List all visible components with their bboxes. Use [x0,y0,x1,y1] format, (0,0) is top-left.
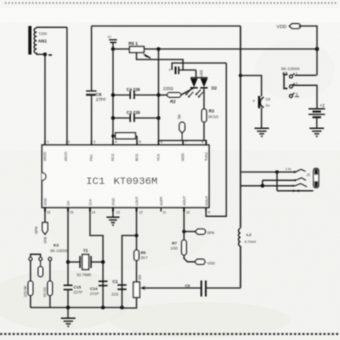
IC1 bottom pin names [44,196,209,206]
potentiometer RV wiper arrow from right [140,286,201,290]
SPK tag connector [42,223,47,235]
capacitor C14 [90,281,108,296]
perforated bottom edge [0,333,340,335]
node C3 row right [157,116,161,120]
capacitor C1 electrolytic LED [169,67,180,75]
earphone jack J1 plug body [314,168,319,187]
node crystal right [101,260,105,264]
IC1 pin stubs [45,141,206,212]
earphone jack J1 wires [241,167,314,192]
switch K3 contact 2 [39,257,42,260]
switch K1 contact 2 [289,85,292,88]
IC1 top pin names [43,151,208,161]
wire y140.5 [159,141,207,146]
tag 5K connector [178,114,185,141]
node pin10 branch [182,230,186,234]
node VDD junction [315,47,319,51]
node C4 row left [111,93,115,97]
IC1 notch [42,173,46,181]
LED D1 [190,78,197,87]
capacitor C6 plates [86,91,97,95]
capacitor C15 [64,285,83,308]
resistor R3 body [202,109,207,122]
wire vertical x45 to IC pin1 [44,54,46,145]
wire node to C5 [241,76,262,97]
resistor R4 column [24,261,33,308]
potentiometer RV body [133,282,139,298]
wire x226 down to pin9 path [206,63,226,216]
wire branch to C1 column [122,236,137,308]
wire pin7 stub [182,141,184,146]
wire vertical x91.5 to IC pin3 [91,95,93,145]
wire wiper down [137,53,184,71]
capacitor C9 [185,281,241,297]
polarity dash [49,54,52,56]
capacitor C1 [112,279,127,297]
node C4 row right [157,93,161,97]
node x158.5 y49 [157,47,161,51]
switch K1 contact 3 [289,94,292,97]
wire VDD junction down to switch [316,49,318,75]
wire antenna bottom to node [37,53,45,55]
resistor R7 [171,240,187,255]
antenna AN1 ferrite bar [28,26,31,55]
antenna AN1 coil [34,28,37,53]
switch K3 contact 3 [48,257,51,260]
node antenna junction [43,53,47,57]
switch K3 bridge [31,254,41,256]
wire right trunk x240.5 [240,26,242,228]
node rail x68 [66,306,70,310]
wire R2 to node [159,94,168,96]
wire C1 to LED anodes [179,69,196,71]
wire battery to ground [316,117,318,128]
node x113 y49 [111,47,115,51]
capacitor C3 [113,110,159,122]
potentiometer R1 body [130,47,145,53]
wire pin12 down [136,208,138,251]
ground pin13 [107,208,120,227]
wire y49 rail [113,48,317,50]
IC1 bottom pin numbers [47,211,211,215]
link component R8 between pin4 pin5 [113,133,137,145]
SPA tag [184,229,215,235]
wire D1 cathode to R2 [181,88,194,95]
wire C5 to ground [261,108,263,128]
VDD tag connector [289,24,300,29]
wire pin14 jog to crystal column [90,208,103,308]
ground C5 [255,128,270,137]
resistor R5 [134,250,147,282]
tag below contact2 [38,261,43,277]
wire antenna top to pin2 column [37,26,67,29]
capacitor C5 electrolytic [253,96,271,108]
wire pin15 column [67,208,69,286]
wire pot bottom to rail [122,298,137,309]
switch K3 contact 1 [29,257,32,260]
capacitor C4 [113,87,159,99]
LED D2 [200,78,207,87]
node pin12 branch [135,234,139,238]
wire contact2 to battery [293,85,317,108]
wire pin16 to SPK tag [44,208,46,223]
switch K1 bracket actuator [284,75,288,89]
op-amp IC1 body [42,145,209,208]
wire vertical x91.5 top [91,26,93,91]
node link left [111,134,114,137]
wire vertical x66 to IC pin2 [66,27,68,145]
node rail x122 [120,306,124,310]
node crystal left [66,260,70,264]
wire VDD tag to junction [299,26,318,49]
wire top rail y26 [92,25,241,27]
node C3 row left [111,116,115,120]
wire vertical x158.5 to IC pin6 [158,49,160,145]
LED D2 emission arrows [195,90,203,98]
wire vertical x113 to IC pin4 [112,49,114,145]
ground rail bottom [31,307,123,309]
perforated top edge [5,2,337,4]
inductor L2 [238,229,255,247]
node C5 branch [239,74,243,78]
switch K1 contact 1 [289,75,292,78]
IC1 top pin numbers [47,140,204,144]
ground battery [310,128,325,137]
resistor R2 body [167,93,181,98]
ground rail symbol [61,308,76,328]
wire contact1 to trunk [295,74,317,76]
crystal Y1 [68,248,103,277]
wire LED box top y63 [172,63,226,70]
wire D2 to R3 [203,88,205,109]
LED D1 emission arrows [185,90,193,98]
resistor R6 column [43,261,52,308]
wire R3 down to y140.5 [203,122,205,141]
wire pin10 down [183,208,185,241]
node rail x103 [101,306,105,310]
battery B1 plates [309,109,326,117]
capacitor C7 tiny top [108,35,118,49]
potentiometer R1 wiper arrow [143,53,150,57]
GND tag below R7 [184,255,215,266]
LED anode rail [191,77,208,79]
